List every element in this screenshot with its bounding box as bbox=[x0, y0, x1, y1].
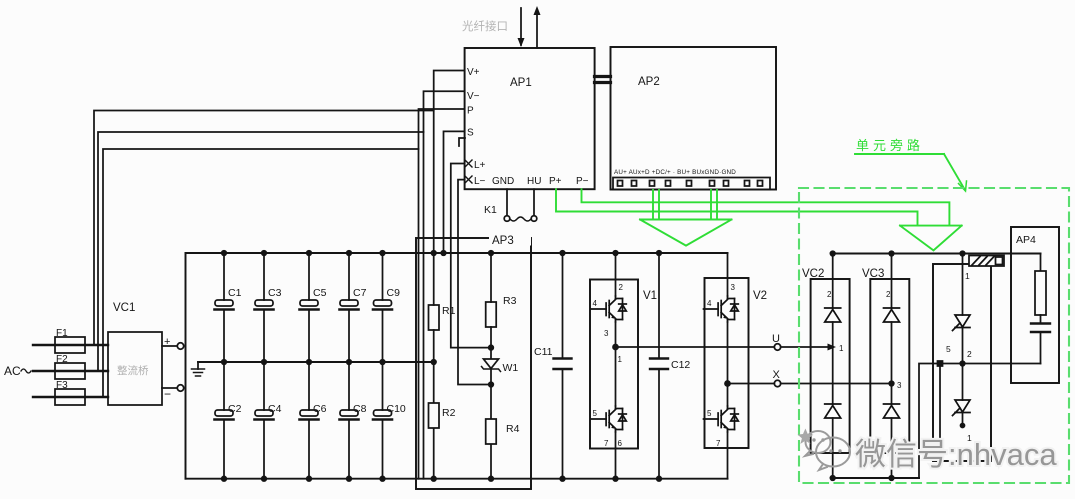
svg-text:V+: V+ bbox=[467, 67, 480, 78]
node top bus / R1 bbox=[431, 251, 436, 256]
diode VC2 upper bbox=[825, 308, 841, 322]
IGBT module V1 bbox=[590, 280, 638, 449]
svg-text:S: S bbox=[467, 128, 474, 139]
svg-text:1: 1 bbox=[839, 344, 844, 353]
svg-text:VC2: VC2 bbox=[802, 268, 824, 280]
svg-text:2: 2 bbox=[619, 283, 624, 292]
svg-text:C7: C7 bbox=[353, 287, 367, 299]
node thyristor midpoint bbox=[960, 361, 965, 366]
svg-text:2: 2 bbox=[967, 349, 972, 359]
svg-text:7: 7 bbox=[604, 439, 609, 448]
wire AC phase 1 bbox=[33, 344, 108, 346]
resistor R3 bbox=[486, 302, 497, 327]
resistor AP4 R bbox=[1035, 271, 1046, 315]
fuse F3 bbox=[55, 389, 85, 405]
resistor R2 bbox=[429, 403, 440, 428]
node V2 phase out bbox=[725, 381, 730, 386]
svg-text:微信号:nhvaca: 微信号:nhvaca bbox=[855, 437, 1057, 472]
svg-text:P+: P+ bbox=[549, 176, 562, 187]
svg-text:V−: V− bbox=[467, 91, 480, 102]
svg-text:3: 3 bbox=[604, 329, 609, 338]
svg-text:HU: HU bbox=[527, 176, 541, 187]
wire VC1 plus output bbox=[162, 345, 177, 347]
transistor V2 lower bbox=[704, 406, 739, 432]
svg-text:P−: P− bbox=[576, 176, 589, 187]
wire V- long horizontal bbox=[98, 132, 424, 371]
wire L- to W1 bbox=[458, 180, 491, 385]
wire VC1 minus output bbox=[162, 387, 177, 389]
wire R3-W1-R4 string bbox=[490, 253, 492, 302]
wire fiber rx bbox=[520, 8, 522, 45]
svg-text:AU+ AUx+D +DC/+ · BU+ BUxGND·G: AU+ AUx+D +DC/+ · BU+ BUxGND·GND bbox=[614, 169, 736, 176]
svg-text:C12: C12 bbox=[671, 359, 690, 371]
board AP3 bbox=[416, 238, 531, 489]
transistor V2 upper bbox=[704, 296, 739, 322]
wire gate signal P+ green bbox=[556, 189, 918, 225]
node minus terminal bbox=[177, 385, 183, 391]
wire thyristor string bbox=[962, 254, 964, 316]
resistor R1 bbox=[429, 305, 440, 330]
green arrow left bbox=[640, 190, 732, 246]
wire R to C bbox=[1040, 315, 1042, 323]
wire C to return bbox=[1040, 333, 1042, 364]
wire U into bypass bbox=[781, 346, 829, 348]
IGBT module V2 bbox=[705, 278, 749, 448]
ground bbox=[197, 362, 199, 369]
svg-text:F2: F2 bbox=[56, 354, 68, 365]
rectifier bridge VC1 bbox=[108, 332, 162, 405]
wire midpoint return bbox=[919, 364, 1041, 479]
svg-text:1: 1 bbox=[965, 271, 970, 281]
svg-text:2: 2 bbox=[827, 290, 832, 299]
terminal strip AP2 bbox=[613, 178, 770, 190]
wire left DC rail bbox=[185, 253, 187, 479]
svg-text:1: 1 bbox=[618, 355, 623, 364]
wire top DC bus bbox=[186, 252, 728, 254]
thyristor VT upper bbox=[953, 315, 971, 331]
capacitor C2 bbox=[215, 362, 242, 481]
capacitor C1 bbox=[215, 251, 242, 365]
svg-text:VC3: VC3 bbox=[862, 268, 884, 280]
svg-text:R1: R1 bbox=[442, 305, 456, 317]
capacitor C4 bbox=[255, 362, 282, 481]
svg-text:U: U bbox=[772, 333, 780, 345]
transistor V1 upper bbox=[592, 296, 627, 322]
green arrow right bbox=[900, 226, 962, 251]
wire S to top bus bbox=[444, 131, 465, 253]
wire L+ to W1 bbox=[451, 164, 491, 348]
fuse F2 bbox=[55, 363, 85, 379]
diode VC3 lower bbox=[884, 404, 900, 418]
wire AC phase 2 bbox=[33, 370, 108, 372]
wire middle bus bbox=[198, 361, 434, 363]
node X terminal bbox=[774, 380, 780, 386]
capacitor C5 bbox=[300, 251, 327, 365]
wire V+ long horizontal bbox=[94, 111, 434, 346]
node plus terminal bbox=[177, 343, 183, 349]
node mid bus / R1 R2 bbox=[431, 360, 436, 365]
node W1 anode bbox=[489, 345, 494, 350]
svg-text:6: 6 bbox=[618, 439, 623, 448]
pin L+ bbox=[465, 160, 472, 167]
svg-text:V2: V2 bbox=[753, 290, 767, 302]
svg-text:7: 7 bbox=[716, 439, 721, 448]
svg-text:整流桥: 整流桥 bbox=[117, 364, 149, 377]
bypass dashed boundary bbox=[799, 188, 1069, 483]
wire X into bypass bbox=[781, 383, 892, 385]
wire V- sense bbox=[424, 91, 465, 478]
svg-text:X: X bbox=[773, 369, 781, 381]
svg-text:C2: C2 bbox=[228, 403, 242, 415]
capacitor C3 bbox=[255, 251, 282, 365]
node V1 phase out bbox=[613, 345, 618, 350]
node return square bbox=[938, 361, 943, 366]
control board AP1 bbox=[465, 48, 595, 189]
svg-text:C1: C1 bbox=[228, 287, 242, 299]
capacitor C10 bbox=[373, 362, 406, 481]
capacitor C11 bbox=[562, 253, 564, 358]
svg-text:2: 2 bbox=[886, 290, 891, 299]
svg-text:C6: C6 bbox=[313, 403, 327, 415]
wire P vertical bbox=[419, 109, 465, 479]
transistor V1 lower bbox=[592, 406, 627, 432]
capacitor C7 bbox=[340, 251, 367, 365]
pin L- bbox=[465, 176, 472, 183]
varistor VS1 bbox=[969, 256, 1004, 267]
node top bus / R3 bbox=[489, 251, 494, 256]
wire bypass bottom rail bbox=[833, 477, 919, 479]
svg-text:单元旁路: 单元旁路 bbox=[856, 138, 924, 153]
svg-text:AP2: AP2 bbox=[638, 76, 660, 88]
svg-text:VC1: VC1 bbox=[113, 302, 135, 314]
diode bridge VC2 bbox=[811, 279, 850, 453]
wire U output bbox=[616, 346, 775, 348]
svg-text:AP3: AP3 bbox=[492, 235, 514, 247]
wire X output bbox=[728, 383, 775, 385]
svg-text:AC: AC bbox=[4, 364, 21, 378]
fuse F1 bbox=[55, 337, 85, 353]
capacitor C8 bbox=[340, 362, 367, 481]
svg-text:AP4: AP4 bbox=[1016, 234, 1036, 246]
resistor R4 bbox=[486, 419, 497, 444]
svg-text:R2: R2 bbox=[442, 407, 456, 419]
svg-text:L−: L− bbox=[474, 176, 486, 187]
node VC2 bottom bbox=[830, 476, 835, 481]
svg-text:C4: C4 bbox=[268, 403, 282, 415]
svg-text:AP1: AP1 bbox=[510, 77, 532, 89]
svg-text:R3: R3 bbox=[503, 295, 517, 307]
node VC3 bottom bbox=[889, 476, 894, 481]
control board AP2 bbox=[611, 47, 777, 190]
node bottom bus / R4 bbox=[489, 476, 494, 481]
wire fiber tx bbox=[536, 12, 538, 48]
watermark wechat logo bbox=[816, 438, 850, 467]
capacitor C9 bbox=[373, 251, 400, 365]
wire gate signal P- green bbox=[582, 189, 950, 225]
wire bottom DC bus bbox=[186, 478, 728, 480]
ribbon connector AP1-AP2 bbox=[595, 75, 611, 78]
wire V2 midpoint bbox=[727, 322, 729, 406]
svg-text:3: 3 bbox=[731, 283, 736, 292]
svg-text:C3: C3 bbox=[268, 287, 282, 299]
thyristor block box bbox=[933, 264, 991, 461]
svg-text:3: 3 bbox=[897, 381, 902, 390]
wire AP4 RC bbox=[1040, 254, 1042, 272]
svg-text:GND: GND bbox=[492, 176, 514, 187]
svg-text:F1: F1 bbox=[56, 328, 68, 339]
svg-text:光纤接口: 光纤接口 bbox=[462, 19, 508, 33]
diode VC2 lower bbox=[825, 404, 841, 418]
svg-text:L+: L+ bbox=[474, 160, 486, 171]
diode bridge VC3 bbox=[870, 279, 909, 453]
wire V1 emitter to bus bbox=[615, 432, 617, 479]
diode VC3 upper bbox=[884, 308, 900, 322]
svg-text:V1: V1 bbox=[643, 290, 657, 302]
node U terminal bbox=[774, 344, 780, 350]
wire V2 emitter to bus bbox=[727, 432, 729, 479]
wire V+ sense bbox=[434, 71, 465, 254]
svg-text:P: P bbox=[467, 106, 474, 117]
svg-text:C11: C11 bbox=[534, 346, 553, 358]
svg-text:−: − bbox=[164, 387, 171, 401]
svg-text:5: 5 bbox=[593, 409, 598, 418]
wire R1-R2 string bbox=[433, 253, 435, 305]
wire bypass top rail bbox=[833, 253, 1041, 255]
capacitor AP4 C bbox=[1031, 322, 1050, 324]
capacitor C6 bbox=[300, 362, 327, 481]
wire square node to box bottom bbox=[939, 366, 941, 461]
wire third long horizontal bbox=[103, 149, 419, 397]
svg-text:C9: C9 bbox=[387, 287, 401, 299]
board AP4 bbox=[1011, 227, 1059, 383]
svg-text:4: 4 bbox=[593, 299, 598, 308]
wire V1 midpoint bbox=[615, 322, 617, 406]
zener diode W1 bbox=[484, 359, 499, 369]
svg-text:C8: C8 bbox=[353, 403, 367, 415]
svg-text:R4: R4 bbox=[506, 423, 520, 435]
svg-text:5: 5 bbox=[707, 409, 712, 418]
svg-text:W1: W1 bbox=[503, 362, 519, 374]
pin jumper hook bbox=[459, 138, 465, 146]
svg-text:+: + bbox=[164, 336, 170, 348]
thyristor VT lower bbox=[962, 364, 964, 401]
svg-text:5: 5 bbox=[946, 344, 951, 354]
node bottom bus / R2 bbox=[431, 476, 436, 481]
node W1 cathode bbox=[489, 382, 494, 387]
svg-text:C10: C10 bbox=[387, 403, 406, 415]
svg-text:C5: C5 bbox=[313, 287, 327, 299]
svg-text:4: 4 bbox=[707, 299, 712, 308]
svg-text:F3: F3 bbox=[56, 380, 68, 391]
capacitor C12 bbox=[658, 253, 660, 358]
svg-text:K1: K1 bbox=[484, 204, 497, 216]
wire AC phase 3 bbox=[33, 396, 108, 398]
relay contact K1 bbox=[506, 189, 508, 215]
